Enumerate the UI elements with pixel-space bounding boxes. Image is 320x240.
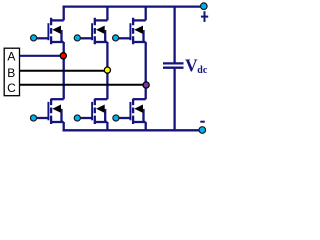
svg-text:A: A xyxy=(7,49,15,63)
svg-text:dc: dc xyxy=(197,65,208,76)
svg-text:C: C xyxy=(7,81,16,95)
svg-text:B: B xyxy=(7,66,15,80)
svg-text:V: V xyxy=(185,56,198,76)
